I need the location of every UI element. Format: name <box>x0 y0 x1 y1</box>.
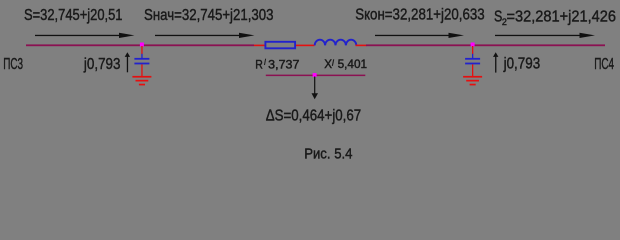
capacitor C2 (right shunt): upper red lead <box>472 46 473 54</box>
label R prime mark <box>265 59 266 65</box>
capacitor C2: bottom plate <box>465 63 480 65</box>
svg-text:5,401: 5,401 <box>338 57 368 71</box>
label X prime mark <box>332 59 333 66</box>
svg-text:Рис. 5.4: Рис. 5.4 <box>304 146 352 163</box>
inductor X (coil, 4 arcs) <box>315 40 357 46</box>
svg-text:ΔS=0,464+j0,67: ΔS=0,464+j0,67 <box>266 108 362 125</box>
ground left: bar 3 <box>139 84 145 86</box>
wire: red lead right of coil <box>356 45 367 47</box>
wire: red lead left of resistor <box>254 45 266 47</box>
capacitor C1 (left shunt): upper red lead <box>141 46 142 54</box>
capacitor C1: blue stub <box>141 54 142 58</box>
ground right: bar 1 <box>463 76 482 78</box>
power flow arrow S (shaft) <box>35 35 120 36</box>
svg-text:S=32,745+j20,51: S=32,745+j20,51 <box>24 7 123 24</box>
power flow arrow Sнач (shaft) <box>155 35 240 36</box>
up arrow at left capacitor (shaft) <box>127 56 128 72</box>
up arrow at right capacitor (shaft) <box>495 56 496 73</box>
wire: red segment between R and X <box>296 45 315 47</box>
svg-text:Sкон=32,281+j20,633: Sкон=32,281+j20,633 <box>355 7 485 24</box>
power flow arrow S2 (shaft) <box>495 35 580 36</box>
node dot on ΔS branch <box>313 73 317 77</box>
up arrow at left capacitor (head) <box>125 52 130 57</box>
power flow arrow Sкон (shaft) <box>375 35 449 36</box>
power flow arrow Sнач (head) <box>239 33 255 38</box>
svg-text:Sнач=32,745+j21,303: Sнач=32,745+j21,303 <box>144 7 274 24</box>
up arrow at right capacitor (head) <box>493 52 498 57</box>
ground right: bar 2 <box>466 80 479 82</box>
ground left: bar 1 <box>132 76 151 78</box>
resistor R (rectangle) <box>265 42 295 49</box>
svg-text:=32,281+j21,426: =32,281+j21,426 <box>507 9 617 26</box>
down arrow ΔS losses (shaft) <box>314 77 315 94</box>
wire: main line left section ПС3 to resistor <box>26 44 254 46</box>
svg-text:3,737: 3,737 <box>268 57 300 71</box>
down arrow ΔS losses (head) <box>312 93 319 99</box>
ground right: bar 3 <box>470 84 476 86</box>
wire: ΔS branch horizontal line <box>266 75 366 77</box>
svg-text:ПС4: ПС4 <box>594 56 614 73</box>
svg-text:R: R <box>255 57 263 71</box>
capacitor C1: bottom plate <box>134 63 149 65</box>
wire: main line right section to ПС4 <box>366 44 605 46</box>
svg-text:X: X <box>324 57 332 71</box>
ground left: bar 2 <box>136 80 149 82</box>
power flow arrow S2 (head) <box>580 33 596 38</box>
node dot at right capacitor junction <box>471 43 475 47</box>
svg-text:j0,793: j0,793 <box>503 56 541 73</box>
svg-text:ПС3: ПС3 <box>3 56 23 73</box>
capacitor C1: top plate <box>134 58 149 60</box>
capacitor C2: blue stub <box>472 54 473 58</box>
capacitor C1: lower red lead <box>141 64 142 76</box>
power flow arrow S (head) <box>119 33 135 38</box>
power flow arrow Sкон (head) <box>449 33 465 38</box>
node dot at left capacitor junction <box>140 43 144 47</box>
svg-text:j0,793: j0,793 <box>83 56 121 73</box>
capacitor C2: top plate <box>465 58 480 60</box>
capacitor C2: lower red lead <box>472 64 473 76</box>
